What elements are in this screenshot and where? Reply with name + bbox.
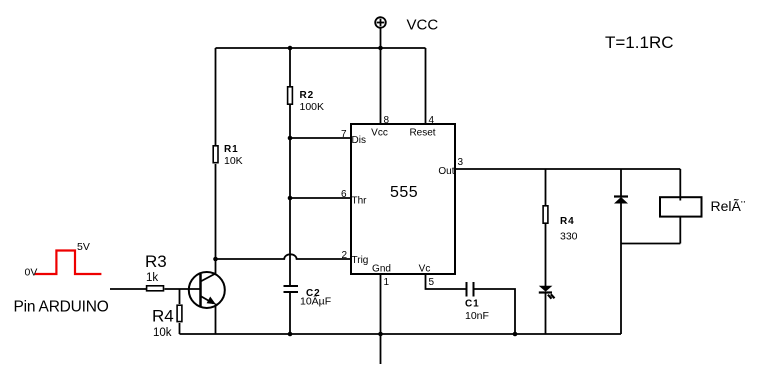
wire: collector vertical <box>215 259 217 274</box>
junction: Gnd on ground rail <box>378 332 383 337</box>
svg-text:Out: Out <box>438 166 454 177</box>
svg-text:Pin ARDUINO: Pin ARDUINO <box>14 299 109 316</box>
wire: VCC top rail <box>216 47 426 49</box>
wire: Dis node down to Thr node <box>289 138 291 198</box>
svg-text:4: 4 <box>429 115 435 126</box>
svg-text:R3: R3 <box>145 252 167 271</box>
wire: R2 top lead <box>289 48 291 86</box>
LED D2 <box>539 286 555 299</box>
resistor R3 <box>147 286 164 291</box>
wire: R2 bottom to Dis node <box>289 105 291 138</box>
svg-text:0V: 0V <box>25 267 38 279</box>
svg-text:10k: 10k <box>153 327 172 339</box>
wire: pin 8 drop <box>380 48 382 124</box>
wire: diode to relay bottom node <box>620 203 622 244</box>
svg-text:R2: R2 <box>300 90 315 101</box>
diode D1 (flyback) <box>614 197 628 204</box>
svg-text:Dis: Dis <box>352 135 366 146</box>
wire: R4 to LED <box>545 224 547 286</box>
svg-text:2: 2 <box>341 250 347 261</box>
wire: pin 3 Out to relay branch <box>455 168 680 170</box>
svg-text:R1: R1 <box>224 144 239 155</box>
wire: LED to ground rail <box>545 293 547 334</box>
svg-text:10nF: 10nF <box>465 310 489 322</box>
resistor R4 (10k) <box>177 305 182 321</box>
wire: R4 10k branch <box>179 289 181 304</box>
svg-text:10ÂµF: 10ÂµF <box>300 295 331 308</box>
resistor R4 (330) <box>543 206 548 223</box>
capacitor C2 <box>284 286 299 292</box>
junction: R2 on VCC rail <box>288 46 293 51</box>
wire: R4 10k to ground rail <box>179 323 181 334</box>
wire: emitter to ground rail <box>215 304 217 335</box>
svg-text:VCC: VCC <box>407 17 439 34</box>
wire: pin 5 drop to C1 <box>426 274 467 289</box>
svg-text:3: 3 <box>458 157 464 168</box>
wire: relay bottom link <box>621 243 680 245</box>
svg-text:5V: 5V <box>77 241 90 253</box>
svg-text:6: 6 <box>341 189 347 200</box>
svg-text:Thr: Thr <box>352 196 368 207</box>
capacitor C1 <box>467 282 474 297</box>
svg-text:8: 8 <box>384 115 390 126</box>
svg-text:100K: 100K <box>300 101 325 113</box>
input pulse waveform <box>35 251 101 275</box>
transistor Q1 <box>189 272 225 308</box>
wire: R4 330 branch from Out <box>545 169 547 205</box>
svg-text:R4: R4 <box>560 216 575 227</box>
wire: pin 1 Gnd drop <box>380 274 382 334</box>
junction: Dis node <box>288 136 293 141</box>
svg-text:RelÃ¨: RelÃ¨ <box>711 198 746 214</box>
svg-text:7: 7 <box>341 129 347 140</box>
svg-text:330: 330 <box>560 231 578 243</box>
wire: C1 to ground rail <box>474 289 516 334</box>
wire: Thr node down to C2 <box>289 198 291 286</box>
svg-text:Gnd: Gnd <box>372 264 391 275</box>
wire: diode branch from Out <box>620 169 622 197</box>
junction: C1 on ground rail <box>513 332 518 337</box>
svg-text:Reset: Reset <box>409 128 435 139</box>
svg-text:555: 555 <box>390 184 418 201</box>
junction: VCC stem on rail <box>378 46 383 51</box>
wire: pin 4 drop <box>425 48 427 124</box>
wire: Dis node to pin 7 <box>290 137 351 139</box>
wire: diode node down to ground rail <box>620 244 622 335</box>
svg-text:Trig: Trig <box>352 255 369 266</box>
wire: R1 bottom to collector node <box>215 164 217 259</box>
svg-text:T=1.1RC: T=1.1RC <box>605 33 674 52</box>
svg-text:C1: C1 <box>465 299 480 310</box>
resistor R2 <box>288 87 293 104</box>
wire: collector node to 555 Trig pin 2 (hop over R2 branch) <box>216 254 352 259</box>
svg-text:1: 1 <box>384 277 390 288</box>
wire: Thr node to pin 6 <box>290 197 351 199</box>
ground stub <box>380 334 382 364</box>
resistor R1 <box>213 146 218 163</box>
junction: C2 on ground rail <box>288 332 293 337</box>
wire: R3 to base <box>165 288 201 290</box>
wire: C2 bottom to ground rail <box>289 292 291 334</box>
wire: R1 top lead <box>215 48 217 145</box>
junction: Thr node <box>288 196 293 201</box>
svg-text:Vcc: Vcc <box>371 128 388 139</box>
wire: relay bottom lead <box>679 217 681 244</box>
svg-text:1k: 1k <box>146 272 158 284</box>
wire: input stub from Pin ARDUINO <box>110 288 146 290</box>
op-amp/timer IC U1 555 body <box>351 124 455 274</box>
VCC power symbol <box>375 17 386 48</box>
ground rail <box>180 333 622 335</box>
relay coil box <box>660 197 702 216</box>
junction: collector node <box>213 257 218 262</box>
svg-text:10K: 10K <box>224 155 243 167</box>
svg-text:R4: R4 <box>152 307 174 326</box>
svg-text:5: 5 <box>429 277 435 288</box>
svg-text:Vc: Vc <box>419 264 431 275</box>
wire: relay top lead <box>679 169 681 201</box>
